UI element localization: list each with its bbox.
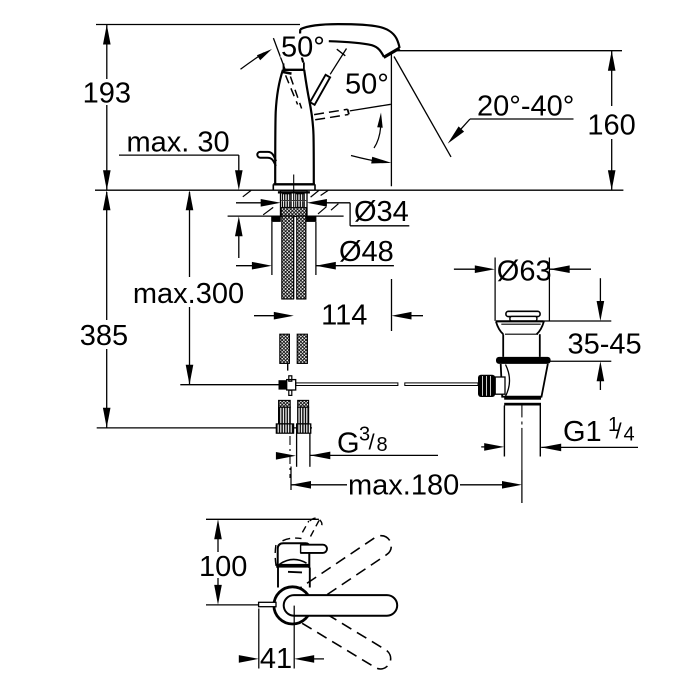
svg-text:Ø48: Ø48: [339, 236, 394, 268]
svg-text:50°: 50°: [281, 32, 325, 64]
svg-text:4: 4: [624, 424, 635, 446]
svg-text:20°-40°: 20°-40°: [477, 91, 574, 123]
svg-text:/: /: [616, 419, 623, 444]
svg-text:160: 160: [587, 110, 635, 142]
svg-text:G1: G1: [563, 416, 602, 448]
svg-text:100: 100: [199, 551, 247, 583]
svg-text:Ø63: Ø63: [497, 256, 552, 288]
svg-text:G: G: [337, 428, 360, 460]
svg-text:114: 114: [321, 299, 367, 331]
svg-text:/: /: [369, 430, 376, 455]
svg-text:max.180: max.180: [348, 469, 459, 501]
svg-text:50°: 50°: [345, 69, 389, 101]
svg-text:Ø34: Ø34: [354, 196, 409, 228]
svg-text:385: 385: [80, 320, 128, 352]
svg-text:193: 193: [83, 78, 131, 110]
svg-text:35-45: 35-45: [568, 328, 642, 360]
svg-text:41: 41: [260, 643, 292, 675]
svg-text:max.300: max.300: [133, 278, 244, 310]
svg-text:max. 30: max. 30: [127, 126, 230, 158]
svg-text:8: 8: [377, 434, 388, 456]
